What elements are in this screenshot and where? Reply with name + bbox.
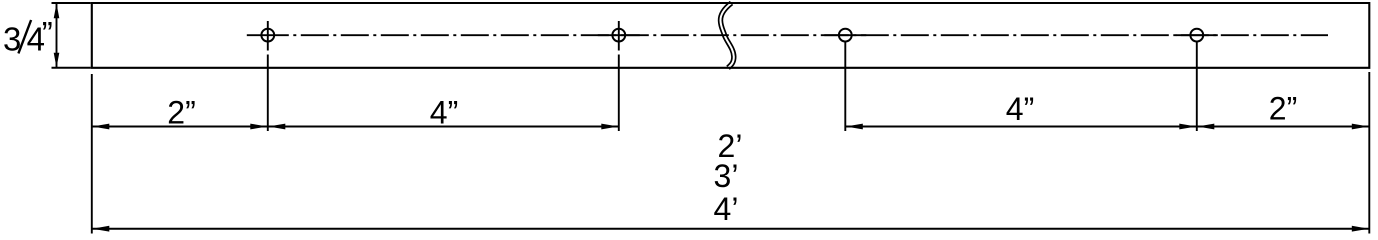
hole H1 vertical crosshair <box>267 21 269 51</box>
thickness dimension line 3/4 <box>56 4 58 67</box>
arrowhead thickness top (points up) <box>54 3 60 18</box>
dimension line row1 right (4" + 2") <box>845 126 1369 128</box>
arrowhead bottom right (points right) <box>1352 226 1369 232</box>
hole H4 horizontal crosshair <box>1176 34 1218 36</box>
svg-text:2”: 2” <box>167 94 195 130</box>
hole H1 horizontal crosshair <box>247 34 289 36</box>
thickness extension line top <box>52 2 91 4</box>
arrowhead right end row1 (points right) <box>1352 124 1369 130</box>
hole H1 extension line <box>267 55 269 132</box>
hole H4 circle <box>1190 29 1203 42</box>
hole H2 extension line <box>618 55 620 132</box>
arrowhead at H2 pointing right <box>601 124 618 130</box>
hole H2 horizontal crosshair <box>598 34 640 36</box>
svg-text:4”: 4” <box>1006 91 1034 127</box>
hole H2 circle <box>612 29 625 42</box>
hole H1 circle <box>261 29 274 42</box>
arrowhead at H1 pointing right <box>250 124 267 130</box>
arrowhead at H3 pointing left <box>846 124 863 130</box>
bar outline <box>92 3 1370 68</box>
hole H3 circle <box>839 29 852 42</box>
arrowhead at H4 pointing right <box>1179 124 1196 130</box>
right edge extension line <box>1368 72 1370 234</box>
arrowhead at H1 pointing left <box>268 124 285 130</box>
dimension line row1 left (2" + 4") <box>92 126 619 128</box>
hole H3 horizontal crosshair <box>824 34 866 36</box>
arrowhead at H4 pointing left <box>1197 124 1214 130</box>
hole H2 vertical crosshair <box>618 21 620 51</box>
hole H3 extension line <box>844 42 846 131</box>
arrowhead left end row1 (points left) <box>92 124 109 130</box>
label 3/4" slash <box>18 20 31 53</box>
svg-text:”: ” <box>42 15 53 52</box>
thickness extension line bottom <box>52 67 91 69</box>
hole H4 extension line <box>1196 42 1198 131</box>
arrowhead thickness bottom (points down) <box>54 53 60 68</box>
left edge extension line <box>91 74 93 234</box>
svg-text:4’: 4’ <box>714 191 739 227</box>
dimension line bottom (overall length) <box>92 228 1369 230</box>
break line (short-break S-curve, double stroke) <box>720 3 733 68</box>
centerline (dash-dot through holes) <box>289 34 1328 36</box>
arrowhead bottom left (points left) <box>92 226 109 232</box>
svg-text:4”: 4” <box>430 94 458 130</box>
svg-text:3’: 3’ <box>714 158 739 194</box>
svg-text:2”: 2” <box>1269 91 1297 127</box>
